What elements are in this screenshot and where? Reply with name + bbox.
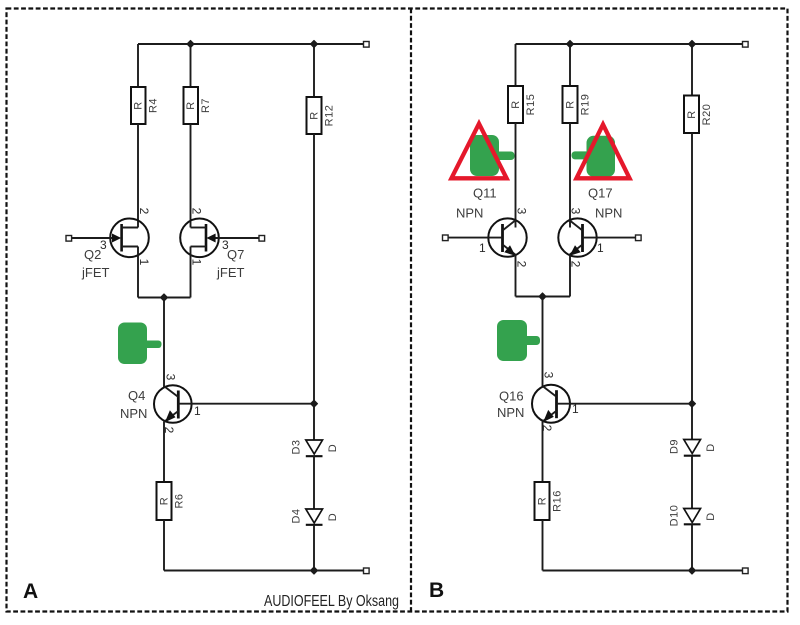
diode D4	[291, 508, 340, 524]
wire Q2 source down	[137, 247, 139, 298]
node junction base R12	[310, 400, 317, 407]
pin 1 Q4	[194, 404, 201, 418]
wire join to Q16 collector	[542, 297, 544, 387]
terminal Q17 base	[636, 235, 642, 241]
wire R4 bottom to Q2 drain	[137, 124, 139, 228]
svg-text:R15: R15	[525, 94, 537, 116]
wire Q11 emitter down	[515, 255, 517, 297]
pin 3 Q11	[515, 208, 529, 215]
label Q4	[128, 388, 145, 403]
pin 3 Q4	[164, 374, 178, 381]
node junction top rail R7	[187, 40, 194, 47]
label jFET Q7	[216, 265, 245, 280]
wire R19 bottom to Q17	[569, 123, 571, 228]
marker green B2	[572, 136, 616, 177]
svg-text:1: 1	[190, 259, 204, 266]
svg-text:R: R	[536, 497, 548, 505]
node junction top rail R12	[310, 40, 317, 47]
pin 3 Q2	[100, 238, 107, 252]
wire R7 top	[190, 44, 192, 87]
svg-text:NPN: NPN	[595, 206, 622, 221]
svg-text:Q4: Q4	[128, 388, 145, 403]
pin 2 Q4	[162, 427, 176, 434]
marker green A	[118, 323, 162, 365]
pin 3 Q17	[569, 208, 583, 215]
pin 1 Q17	[597, 241, 604, 255]
wire Q4 emitter to R6	[163, 422, 165, 483]
svg-text:A: A	[23, 580, 38, 603]
node junction top rail R19	[566, 40, 573, 47]
wire D10 to bottom rail	[691, 524, 693, 570]
node junction base R20	[688, 400, 695, 407]
svg-text:D4: D4	[291, 508, 303, 523]
pin 2 Q17	[569, 261, 583, 268]
svg-text:Q11: Q11	[473, 186, 497, 201]
svg-text:1: 1	[137, 259, 151, 266]
wire R20 bottom long	[691, 133, 693, 440]
svg-text:Q16: Q16	[499, 389, 524, 404]
terminal bottom rail B	[743, 568, 749, 574]
svg-text:2: 2	[137, 208, 151, 215]
pin 3 Q7	[222, 238, 229, 252]
wire bottom rail B	[543, 570, 746, 572]
warning triangle 1	[451, 124, 506, 179]
node junction bottom A	[310, 567, 317, 574]
label Q2	[84, 247, 101, 262]
marker green B1	[470, 135, 515, 176]
terminal Q11 base	[443, 235, 449, 241]
terminal top rail B	[743, 42, 749, 48]
svg-text:Q17: Q17	[588, 186, 613, 201]
wire emitter join rail B	[516, 296, 571, 298]
transistor Q2 jFET	[71, 219, 149, 258]
transistor Q16 NPN	[532, 385, 570, 423]
node junction join B	[539, 293, 546, 300]
svg-text:3: 3	[515, 208, 529, 215]
label Q11	[473, 186, 497, 201]
label A	[23, 580, 38, 603]
svg-text:NPN: NPN	[497, 405, 524, 420]
wire R6 bottom	[163, 520, 165, 571]
pin 1 Q11	[479, 241, 486, 255]
svg-text:D10: D10	[669, 505, 681, 527]
label Q7	[227, 247, 244, 262]
wire Q16 base to R20 branch	[557, 403, 693, 405]
label jFET Q2	[81, 265, 110, 280]
marker green B3	[497, 320, 540, 361]
node junction top rail R20	[688, 40, 695, 47]
transistor Q17 NPN	[558, 218, 637, 256]
label NPN Q11	[456, 206, 483, 221]
wire top rail A	[138, 43, 366, 45]
svg-text:R: R	[564, 100, 576, 108]
diode D10	[669, 505, 718, 527]
transistor Q7 jFET	[180, 219, 261, 258]
label B	[429, 579, 444, 602]
svg-text:1: 1	[479, 241, 486, 255]
wire R16 bottom	[542, 520, 544, 571]
node junction join A	[160, 294, 167, 301]
resistor R12	[307, 97, 336, 134]
svg-text:NPN: NPN	[456, 206, 483, 221]
pin 1 Q16	[572, 402, 579, 416]
resistor R15	[508, 86, 537, 123]
svg-text:3: 3	[542, 372, 556, 379]
terminal top rail A	[364, 42, 370, 48]
terminal Q7 gate	[259, 236, 265, 242]
wire D4 to bottom rail	[313, 525, 315, 571]
svg-text:R: R	[308, 111, 320, 119]
wire D9 to D10	[691, 456, 693, 509]
pin 2 Q7	[190, 208, 204, 215]
wire top rail B	[516, 43, 746, 45]
svg-text:2: 2	[190, 208, 204, 215]
svg-text:R7: R7	[200, 98, 212, 113]
wire R12 top	[313, 44, 315, 97]
wire Q17 emitter down	[569, 255, 571, 297]
resistor R19	[563, 86, 592, 123]
svg-text:R19: R19	[580, 94, 592, 116]
wire R20 top	[691, 44, 693, 96]
resistor R6	[157, 482, 186, 520]
svg-text:R: R	[133, 101, 145, 109]
svg-text:jFET: jFET	[81, 265, 110, 280]
svg-text:B: B	[429, 579, 444, 602]
wire Q7 source down	[190, 247, 192, 298]
svg-text:D: D	[327, 444, 339, 452]
svg-text:D3: D3	[291, 439, 303, 454]
svg-text:jFET: jFET	[216, 265, 245, 280]
wire join to Q4 collector	[163, 298, 165, 388]
svg-text:R: R	[158, 497, 170, 505]
svg-text:R: R	[510, 100, 522, 108]
wire R12 bottom long	[313, 134, 315, 440]
pin 2 Q2	[137, 208, 151, 215]
wire R7 bottom to Q7 drain	[190, 124, 192, 228]
pin 2 Q16	[540, 425, 554, 432]
svg-text:R20: R20	[701, 104, 713, 126]
label Q17	[588, 186, 613, 201]
wire R4 top	[137, 44, 139, 87]
wire R19 top	[569, 44, 571, 86]
warning triangle 2	[576, 125, 629, 179]
wire Q4 base to R12 branch	[178, 403, 314, 405]
wire source join rail A	[138, 297, 191, 299]
transistor Q11 NPN	[448, 218, 527, 256]
svg-text:1: 1	[194, 404, 201, 418]
resistor R16	[535, 482, 564, 520]
svg-text:R: R	[686, 110, 698, 118]
pin 3 Q16	[542, 372, 556, 379]
wire R15 bottom to Q11	[515, 123, 517, 228]
wire Q16 emitter to R16	[542, 421, 544, 482]
pin 1 Q2	[137, 259, 151, 266]
svg-text:R: R	[185, 101, 197, 109]
label NPN Q17	[595, 206, 622, 221]
svg-text:R12: R12	[324, 105, 336, 127]
svg-text:NPN: NPN	[120, 406, 147, 421]
svg-text:R6: R6	[174, 493, 186, 508]
node junction bottom B	[688, 567, 695, 574]
wire D3 to D4	[313, 456, 315, 509]
diode D9	[669, 439, 718, 456]
svg-text:AUDIOFEEL By Oksang: AUDIOFEEL By Oksang	[264, 593, 399, 610]
svg-text:3: 3	[569, 208, 583, 215]
svg-text:Q2: Q2	[84, 247, 101, 262]
svg-text:2: 2	[515, 261, 529, 268]
label NPN Q16	[497, 405, 524, 420]
terminal bottom rail A	[364, 568, 370, 574]
svg-text:D: D	[705, 512, 717, 520]
svg-text:D: D	[705, 443, 717, 451]
wire bottom rail A	[164, 570, 366, 572]
transistor Q4 NPN	[154, 385, 192, 423]
diode D3	[291, 439, 340, 456]
svg-text:3: 3	[164, 374, 178, 381]
resistor R4	[131, 87, 160, 124]
wire R15 top	[515, 44, 517, 86]
svg-text:1: 1	[597, 241, 604, 255]
pin 1 Q7	[190, 259, 204, 266]
label NPN Q4	[120, 406, 147, 421]
resistor R20	[684, 96, 713, 134]
svg-text:D9: D9	[669, 439, 681, 454]
svg-text:Q7: Q7	[227, 247, 244, 262]
svg-text:R16: R16	[552, 490, 564, 512]
pin 2 Q11	[515, 261, 529, 268]
terminal Q2 gate	[66, 236, 72, 242]
svg-text:D: D	[327, 513, 339, 521]
svg-text:R4: R4	[148, 98, 160, 113]
label Q16	[499, 389, 524, 404]
resistor R7	[184, 87, 213, 124]
label AUDIOFEEL By Oksang	[264, 593, 399, 610]
